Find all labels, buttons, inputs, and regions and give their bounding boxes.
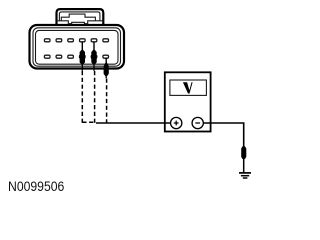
meter probe tip P1 at pin 4	[80, 42, 85, 71]
connector latch inner outline	[59, 12, 100, 21]
wire W4 solid to voltmeter positive terminal	[96, 122, 170, 124]
voltmeter V value label	[183, 82, 193, 93]
wire W5 from negative terminal to ground drop	[204, 123, 244, 147]
test lead wire W3 (dashed) from probe P3	[106, 79, 108, 124]
ground probe tip P4	[241, 146, 246, 173]
connector latch tab profile	[61, 14, 95, 21]
meter probe tip P2 at pin 5	[91, 42, 96, 71]
meter probe tip P3 at pin 12	[104, 58, 109, 79]
connector C1 housing outer outline	[30, 25, 125, 69]
voltmeter U1 body	[165, 72, 211, 131]
voltmeter negative terminal	[192, 117, 203, 128]
voltmeter display window	[170, 80, 207, 95]
voltmeter positive terminal	[171, 117, 182, 128]
connector latch outer outline	[57, 9, 104, 25]
figure number label N0099506	[8, 178, 64, 194]
pin cavity row A (top), pins 1-6	[44, 39, 108, 42]
test lead wire W2 (dashed) from probe P2	[94, 71, 96, 123]
ground symbol GND	[239, 173, 251, 178]
dashed junction run along bottom node	[82, 121, 96, 123]
connector C1 housing middle shell line	[33, 28, 121, 66]
test lead wire W1 (dashed) from probe P1	[81, 71, 83, 123]
pin cavity row B (bottom), pins 7-12	[44, 55, 108, 58]
connector latch base platform with center notch	[57, 21, 104, 24]
connector C1 housing inner shell line	[36, 30, 119, 64]
